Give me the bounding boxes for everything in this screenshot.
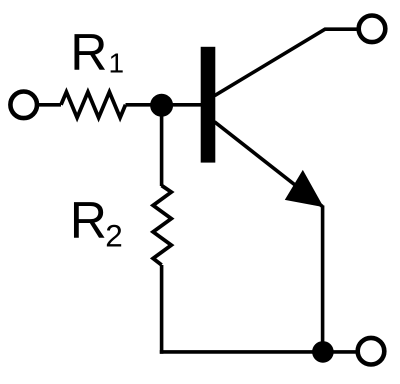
transistor Q1 emitter wire [215,122,323,207]
terminal T2 (collector output) [359,15,386,42]
transistor Q1 base bar [201,47,216,163]
wire node to base [162,103,202,107]
transistor Q1 emitter arrow [286,171,323,207]
svg-text:1: 1 [109,47,125,78]
terminal T3 (emitter output) [358,338,385,365]
label R2 [70,191,123,254]
wire R1 to node [126,103,162,107]
terminal T1 (left input) [10,92,37,119]
node junction dot D2 (emitter node) [312,341,334,363]
transistor Q1 collector wire [215,29,359,96]
wire R2 down [160,265,164,354]
resistor R1 [61,92,126,118]
node junction dot D1 (base node) [150,94,173,117]
wire bottom [160,350,358,354]
resistor R2 [153,186,171,266]
svg-text:R: R [70,191,107,249]
svg-text:R: R [70,23,107,81]
wire emitter down [321,206,325,353]
wire node down to R2 [160,105,164,186]
svg-text:2: 2 [105,218,123,254]
label R1 [70,23,124,81]
wire T1 to R1 [36,103,61,107]
